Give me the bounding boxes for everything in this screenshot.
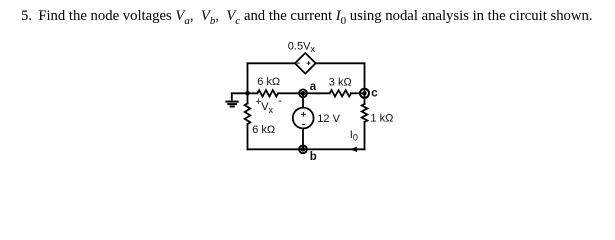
ground bar 3: [230, 106, 235, 108]
wire top rail right segment: [316, 62, 365, 64]
node c terminal circle: [360, 89, 369, 98]
resistor R 1k vertical zigzag: [362, 104, 368, 122]
wire left rail: middle rail to 6k vertical resistor: [247, 93, 249, 103]
svg-text:0.5Vx: 0.5Vx: [288, 41, 316, 55]
wire middle branch: 12V source to node b: [302, 128, 304, 149]
wire middle rail: 3k resistor to node c: [351, 92, 365, 94]
ground stub wire: [232, 92, 248, 94]
svg-text:3 kΩ: 3 kΩ: [329, 76, 352, 88]
svg-text:6 kΩ: 6 kΩ: [252, 124, 275, 136]
wire middle branch: node a to 12V source: [302, 93, 304, 107]
wire middle rail: 6k resistor to node a: [278, 92, 303, 94]
wire middle rail: left rail to 6k resistor: [248, 92, 258, 94]
svg-text:c: c: [371, 88, 378, 100]
wire left rail upper (top rail to middle rail): [247, 63, 249, 93]
wire right rail upper (top rail to node c): [364, 63, 366, 93]
svg-text:6 kΩ: 6 kΩ: [257, 76, 280, 88]
resistor R 6k horizontal zigzag: [257, 90, 278, 96]
resistor R 6k vertical zigzag: [245, 103, 251, 124]
wire bottom rail: left corner to node b: [248, 148, 304, 150]
dependent source minus sign: [297, 62, 300, 64]
dependent source plus sign: [307, 61, 311, 65]
problem statement text: [21, 8, 593, 25]
wire right rail: node c to 1k resistor: [364, 93, 366, 104]
resistor R 3k horizontal zigzag: [330, 90, 351, 96]
node b terminal circle: [299, 145, 307, 153]
ground bar 1: [225, 101, 238, 103]
wire middle rail: node a to 3k resistor: [303, 92, 330, 94]
svg-text:1 kΩ: 1 kΩ: [370, 112, 393, 124]
svg-text:I0: I0: [350, 129, 358, 143]
svg-text:-: -: [278, 95, 282, 107]
dependent source diamond 0.5Vx: [295, 53, 316, 74]
voltage source plus sign: [301, 112, 306, 117]
node a terminal circle: [299, 89, 307, 97]
svg-text:12 V: 12 V: [317, 113, 340, 125]
svg-text:b: b: [310, 151, 317, 163]
wire top rail left segment: [248, 62, 296, 64]
current I0 arrowhead on bottom rail: [350, 147, 357, 152]
wire right rail lower (1k resistor to bottom rail): [364, 122, 366, 149]
wire bottom rail: node b to right corner: [303, 148, 365, 150]
ground bar 2: [227, 103, 237, 105]
svg-text:a: a: [310, 81, 317, 93]
svg-text:Vx: Vx: [261, 101, 273, 115]
wire left rail lower (6k vertical to bottom rail): [247, 124, 249, 149]
voltage source minus sign: [302, 123, 305, 125]
junction dot at ground/left rail: [245, 91, 250, 96]
ground lead vertical: [231, 93, 233, 101]
voltage source V1 12V circle: [293, 108, 314, 129]
